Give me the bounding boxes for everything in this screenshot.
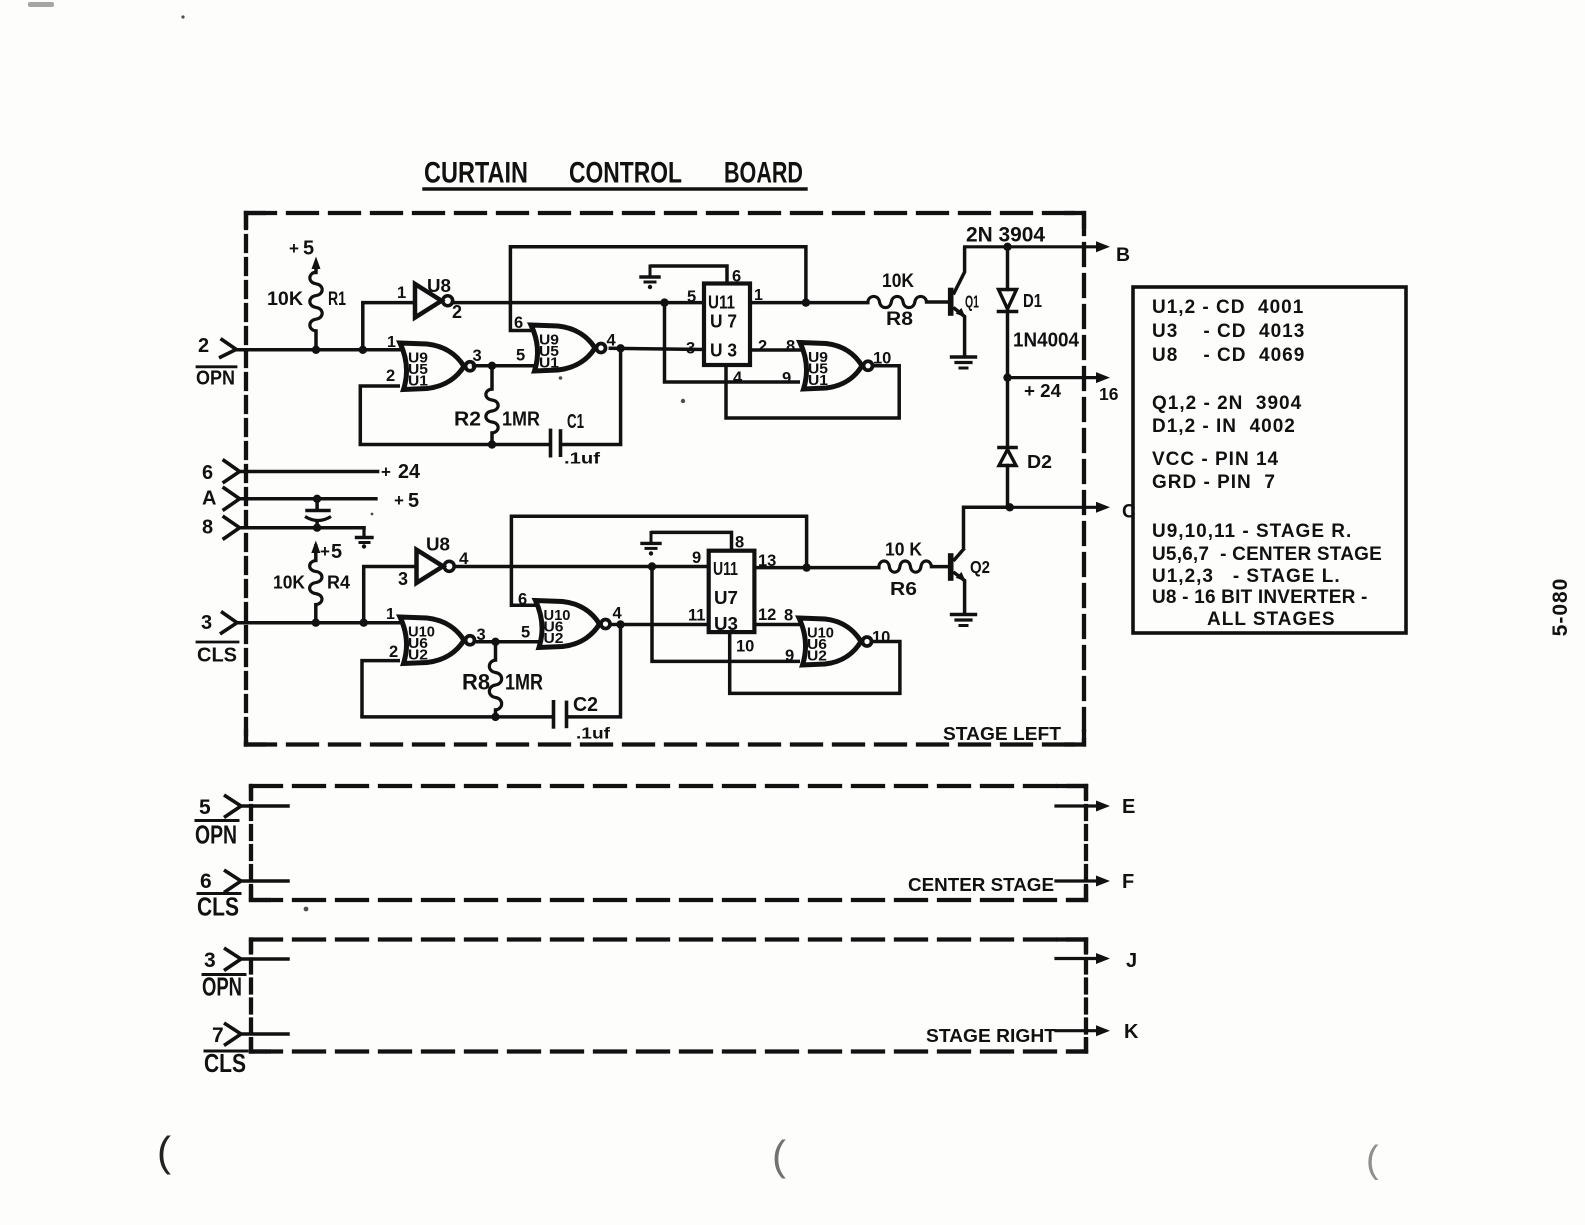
node +24 junction (1003, 373, 1011, 381)
node R2 bottom junction (488, 440, 496, 448)
svg-text:R1: R1 (328, 289, 346, 310)
wire CLS input to NOR U2a pin1 (237, 621, 400, 625)
wire NOR3a input9 from pin5 node (665, 303, 801, 382)
wire input 8 to ground (240, 526, 364, 530)
wire U11a pin6 to ground (650, 266, 727, 284)
NOR gate U1a (U9/U5/U1) (400, 343, 464, 390)
svg-text:ALL STAGES: ALL STAGES (1207, 609, 1336, 630)
label 5 (U11a) (687, 288, 696, 306)
svg-text:D1: D1 (1023, 291, 1042, 311)
label C (1122, 502, 1136, 523)
label 3 (U8b in) (398, 569, 408, 589)
transistor Q2 2N3904 (951, 548, 966, 613)
wire +24 node to output 16 (1008, 376, 1098, 379)
label U8 (U8b) (426, 535, 450, 555)
NOR gate U2c (U10/U6/U2) right (799, 618, 861, 665)
svg-text:U7: U7 (714, 588, 738, 608)
flip-flop box U11/U7/U3 (stage-left lower) (709, 551, 755, 632)
label 2 (NOR U2a) (389, 643, 398, 661)
wire NOR U2b out to U11b pin11 (613, 623, 709, 627)
svg-text:U2: U2 (807, 648, 827, 665)
svg-text:U2: U2 (544, 630, 564, 647)
ground (input 8) (357, 528, 373, 549)
svg-text:5-080: 5-080 (1549, 578, 1572, 637)
svg-text:U2: U2 (408, 647, 428, 664)
wire R8 to Q1 base (927, 300, 948, 304)
label 12 (U11b) (758, 606, 776, 624)
wire branch up to inverter U8a input (363, 303, 415, 350)
scan specks (28, 2, 685, 911)
wire output E (1056, 804, 1097, 807)
wire timing loop bottom (R2/C1) (360, 443, 549, 447)
input connector 6 (+24 feed) (223, 460, 240, 484)
capacitor C3 bypass (305, 499, 331, 528)
svg-text:6: 6 (732, 268, 741, 286)
label Q1 (965, 292, 979, 312)
label 9 (U11b) (692, 549, 701, 567)
node C1 riser junction (616, 344, 624, 352)
svg-text:VCC - PIN 14: VCC - PIN 14 (1152, 449, 1279, 470)
wire output J (1056, 957, 1097, 960)
wire output K (1056, 1029, 1097, 1032)
svg-text:U 3: U 3 (710, 341, 737, 361)
svg-text:4: 4 (613, 605, 623, 623)
notes box (1133, 287, 1406, 633)
input connector 3 (CLS) (220, 612, 237, 635)
svg-text:5: 5 (516, 347, 525, 365)
svg-text:R2: R2 (454, 409, 481, 431)
resistor R6 10K base resistor Q2 (879, 561, 932, 572)
svg-text:U8 - 16 BIT INVERTER -: U8 - 16 BIT INVERTER - (1152, 587, 1368, 608)
svg-text:J: J (1126, 950, 1137, 972)
label 1 (NOR U1a) (387, 334, 396, 351)
transistor Q1 2N3904 (951, 247, 966, 357)
svg-text:3: 3 (686, 340, 695, 358)
svg-text:+: + (394, 491, 404, 510)
svg-text:CLS: CLS (197, 892, 239, 922)
NOR gate U2a (U10/U6/U2) (400, 617, 464, 664)
wire U8b output to U11b pin9 (455, 565, 709, 569)
svg-text:4: 4 (733, 369, 743, 387)
label 16 (1099, 384, 1119, 404)
svg-text:+: + (381, 463, 391, 482)
label R2 (454, 409, 481, 431)
NOR gate U1c (U9/U5/U1) right (800, 343, 862, 390)
label +5 (R1) (289, 238, 314, 260)
ground (Q2 emitter) (952, 613, 976, 616)
label 8 (NOR U1c) (786, 338, 795, 356)
label U8 (U8a) (427, 276, 451, 296)
svg-text:C1: C1 (567, 411, 584, 433)
sheet number 5-080 (1549, 578, 1572, 637)
label +5 (input) (394, 490, 419, 512)
wire input 5 stub (241, 804, 288, 808)
svg-text:C2: C2 (573, 694, 598, 716)
svg-text:1MR: 1MR (505, 670, 543, 695)
svg-text:CONTROL: CONTROL (569, 157, 682, 190)
svg-text:U1: U1 (539, 355, 559, 372)
inverter U8a (415, 284, 442, 318)
svg-text:3: 3 (204, 949, 216, 972)
notes text (1152, 297, 1382, 630)
label 10 K (R6) (885, 539, 923, 560)
label 3 (NOR U1a out) (473, 347, 482, 365)
label J (1126, 950, 1137, 972)
svg-text:BOARD: BOARD (724, 157, 803, 190)
node B/D1 junction (1003, 243, 1011, 251)
svg-text:1N4004: 1N4004 (1013, 329, 1080, 352)
node R8b bottom junction (491, 713, 499, 721)
svg-text:Q2: Q2 (970, 557, 990, 577)
wire NOR3b input9 from pin9 node (652, 567, 800, 662)
resistor R1 10K pull-up (310, 257, 322, 350)
label B (1116, 244, 1130, 266)
svg-text:U3: U3 (714, 614, 738, 634)
diode D2 1N4004 (999, 378, 1016, 508)
svg-text:5: 5 (521, 624, 530, 642)
svg-text:U11: U11 (708, 293, 735, 313)
svg-text:(: ( (772, 1132, 786, 1179)
svg-text:U 7: U 7 (710, 312, 737, 332)
wire U8a output to U11a pin5 (452, 301, 704, 305)
svg-text:U5,6,7 - CENTER STAGE: U5,6,7 - CENTER STAGE (1152, 544, 1382, 565)
svg-text:CLS: CLS (197, 645, 237, 667)
NOR gate U1b (U9/U5/U1) (531, 325, 595, 371)
label 6 (NOR U1b) (514, 314, 523, 332)
wire input A to +5 (240, 497, 376, 501)
svg-text:12: 12 (758, 606, 776, 624)
svg-text:8: 8 (735, 534, 744, 552)
label 2 (U8a out) (452, 302, 462, 322)
wire U11a pin2 to NOR3a pin8 (750, 348, 801, 352)
label 2N 3904 (966, 224, 1045, 247)
label +24 (1024, 381, 1061, 401)
input connector 5 (OPN center) (224, 795, 241, 818)
node R2 top junction (488, 362, 496, 370)
svg-text:OPN: OPN (196, 368, 235, 390)
resistor R2 1MR (486, 366, 498, 445)
NOR gate U2b (U10/U6/U2) (536, 601, 600, 648)
resistor R4 10K pull-up (310, 541, 322, 623)
label 10 (NOR U1c out) (873, 350, 891, 368)
svg-text:8: 8 (202, 517, 213, 539)
label STAGE LEFT (943, 724, 1061, 744)
label C1 (567, 411, 584, 433)
svg-text:10: 10 (736, 638, 754, 656)
label 8 (NOR U2c) (784, 607, 793, 625)
node R8b top junction (491, 638, 499, 646)
svg-text:R8: R8 (886, 309, 913, 330)
wire timing loop bottom (R8b/C2) (362, 715, 552, 719)
input connector 6 (CLS center) (224, 870, 241, 893)
svg-text:U11: U11 (713, 559, 738, 579)
label .1uf (C1) (564, 451, 601, 468)
wire input 6 to +24 (240, 470, 378, 474)
svg-text:.1uf: .1uf (576, 726, 611, 743)
svg-text:F: F (1122, 871, 1134, 893)
label 9 (NOR U1c) (782, 370, 791, 388)
svg-text:5: 5 (331, 541, 342, 563)
input connector 7 (CLS right) (224, 1023, 241, 1046)
svg-text:5: 5 (199, 796, 211, 819)
label 6 (NOR U2b) (518, 591, 527, 609)
svg-text:R4: R4 (327, 572, 351, 593)
svg-text:U9,10,11 - STAGE R.: U9,10,11 - STAGE R. (1152, 521, 1352, 542)
input connector 8 (ground) (223, 516, 240, 540)
label E (1122, 796, 1135, 818)
wire output F (1056, 879, 1097, 882)
svg-text:7: 7 (212, 1024, 224, 1047)
label 6 (U11a set pin) (732, 268, 741, 286)
node rail / pin13 junction (802, 563, 810, 571)
label R8 (1MR) (462, 670, 490, 695)
title CURTAIN CONTROL BOARD (424, 157, 803, 190)
input connector A (+5 feed) (223, 487, 240, 511)
svg-text:GRD - PIN 7: GRD - PIN 7 (1152, 472, 1276, 493)
wire input 6 stub (241, 879, 288, 883)
svg-text:U3 - CD 4013: U3 - CD 4013 (1152, 321, 1305, 342)
label 5 (NOR U2b) (521, 624, 530, 642)
node C2 riser junction (616, 620, 624, 628)
wire NOR U1c out feedback to U11a pin4 (726, 365, 899, 418)
label 4 (NOR U1b out) (607, 332, 617, 350)
svg-text:8: 8 (784, 607, 793, 625)
wire U11a pin1 to R8 (750, 301, 868, 305)
stage-right dashed enclosure box (251, 940, 1086, 1052)
wire NOR U2c out feedback to U11b pin10 (730, 632, 900, 693)
label 10K (R1) (267, 289, 303, 310)
svg-text:(: ( (1366, 1139, 1379, 1181)
node C junction (1006, 503, 1014, 511)
label 2 (U11a) (758, 338, 767, 356)
svg-text:9: 9 (782, 370, 791, 388)
label 1MR (R2) (502, 409, 540, 431)
label 13 (U11b) (758, 552, 776, 570)
label 10 (NOR U2c out) (872, 629, 890, 647)
wire U11b pin8 to ground (651, 532, 732, 550)
wire NOR U1a out to NOR U1b pin5 (474, 364, 534, 368)
capacitor C2 .1uf (554, 702, 567, 727)
diode D1 1N4004 (999, 247, 1017, 378)
svg-text:2: 2 (386, 367, 395, 385)
label K (1124, 1021, 1139, 1043)
svg-text:2: 2 (758, 338, 767, 356)
ground (Q1 emitter) (952, 355, 976, 358)
svg-text:1MR: 1MR (502, 409, 540, 431)
resistor R8 1MR (lower) (489, 642, 501, 717)
node inverter branch junction (CLS) (360, 619, 368, 627)
label STAGE RIGHT (926, 1025, 1057, 1046)
svg-text:STAGE LEFT: STAGE LEFT (943, 724, 1061, 744)
svg-text:.1uf: .1uf (564, 451, 601, 468)
svg-text:8: 8 (786, 338, 795, 356)
wire U11b pin13 to R6 (754, 566, 878, 570)
svg-text:6: 6 (202, 462, 213, 484)
svg-text:9: 9 (692, 549, 701, 567)
svg-text:U8: U8 (426, 535, 450, 555)
label CENTER STAGE (908, 874, 1054, 895)
label D2 (1027, 452, 1052, 472)
svg-text:(: ( (157, 1128, 171, 1175)
label 3 (NOR U2a out) (477, 626, 486, 644)
wire Q1 collector rail to output B (965, 245, 1097, 248)
svg-text:5: 5 (408, 490, 419, 512)
label D1 (1023, 291, 1042, 311)
svg-text:U1: U1 (808, 372, 828, 389)
label Q2 (970, 557, 990, 577)
wire OPN input to NOR U1a pin1 (236, 348, 400, 352)
label +24 (input) (381, 461, 421, 483)
label 2 (NOR U1a) (386, 367, 395, 385)
wire NOR U2a out to NOR U2b pin5 (478, 640, 538, 644)
wire branch up to inverter U8b input (364, 567, 417, 623)
wire input 3 stub (241, 957, 288, 961)
label R4 (327, 572, 351, 593)
label 10K (R4) (273, 572, 306, 593)
label 4 (NOR U2b out) (613, 605, 623, 623)
label 11 (U11b) (688, 607, 705, 625)
svg-text:1: 1 (387, 334, 396, 351)
label 3 (U11a) (686, 340, 695, 358)
svg-text:6: 6 (200, 870, 212, 893)
svg-text:U1,2 - CD 4001: U1,2 - CD 4001 (1152, 297, 1304, 318)
label F (1122, 871, 1134, 893)
label R6 (890, 578, 917, 599)
label 10 (U11b reset pin) (736, 638, 754, 656)
label 9 (NOR U2c) (785, 647, 794, 665)
svg-text:16: 16 (1099, 384, 1119, 404)
svg-text:CURTAIN: CURTAIN (424, 157, 528, 190)
label 1 (NOR U2a) (386, 606, 395, 623)
svg-text:9: 9 (785, 647, 794, 665)
svg-text:STAGE RIGHT: STAGE RIGHT (926, 1025, 1057, 1046)
svg-text:5: 5 (687, 288, 696, 306)
svg-text:D1,2 - IN 4002: D1,2 - IN 4002 (1152, 416, 1296, 437)
wire C1 to NOR U1b output node (562, 348, 621, 444)
svg-text:2: 2 (452, 302, 462, 322)
svg-text:B: B (1116, 244, 1130, 266)
svg-text:10K: 10K (273, 572, 306, 593)
label +5 (R4) (320, 541, 342, 563)
wire C node to output C (1010, 506, 1097, 509)
wire top feedback rail (U11a pin1 to NOR U1b pin6) (510, 247, 806, 331)
flip-flop box U11/U7/U3 (stage-left upper) (704, 284, 750, 366)
wire R6 to Q2 base (932, 565, 949, 569)
node U8a-out / pin5 / NOR3a-9 junction (660, 298, 668, 306)
svg-text:U8 - CD 4069: U8 - CD 4069 (1152, 345, 1305, 366)
svg-text:10 K: 10 K (885, 539, 923, 560)
svg-text:1: 1 (397, 284, 406, 302)
svg-text:2: 2 (389, 643, 398, 661)
capacitor C1 .1uf (551, 430, 561, 455)
svg-text:D2: D2 (1027, 452, 1052, 472)
wire top feedback rail (U11b pin13 to NOR U2b pin6) (511, 516, 806, 605)
inverter U8b (417, 550, 444, 583)
label C2 (573, 694, 598, 716)
stage-left dashed enclosure box (246, 213, 1084, 745)
svg-text:U8: U8 (427, 276, 451, 296)
label 4 (U11a reset pin) (733, 369, 743, 387)
node R4/CLS junction (312, 619, 320, 627)
svg-text:A: A (202, 488, 216, 510)
node R1/OPN junction (312, 346, 320, 354)
label R1 (328, 289, 346, 310)
wire U11b pin12 to NOR3b pin8 (754, 623, 800, 627)
label 1 (U11a) (754, 287, 763, 304)
label 4 (U8b out) (459, 549, 469, 568)
wire C node to Q2 collector (964, 507, 1010, 548)
label 1 (U8a in) (397, 284, 406, 302)
svg-text:2: 2 (198, 335, 209, 357)
svg-text:U1,2,3 - STAGE L.: U1,2,3 - STAGE L. (1152, 566, 1341, 587)
svg-text:OPN: OPN (195, 820, 237, 850)
label 5 (NOR U1b) (516, 347, 525, 365)
label 8 (U11b set pin) (735, 534, 744, 552)
input connector 3 (OPN right) (224, 948, 241, 971)
label 10K (R8) (882, 270, 914, 292)
svg-text:E: E (1122, 796, 1135, 818)
resistor R8 10K base resistor Q1 (868, 296, 927, 307)
svg-text:5: 5 (303, 238, 314, 260)
input connector 2 (OPN) (219, 339, 236, 358)
wire NOR U1a pin2 feedback stub (360, 386, 400, 445)
wire input 7 stub (241, 1032, 288, 1036)
node A/C3 junction (313, 495, 321, 503)
svg-text:K: K (1124, 1021, 1139, 1043)
wire C2 to NOR U2b output node (568, 625, 621, 717)
svg-text:CENTER STAGE: CENTER STAGE (908, 874, 1054, 895)
svg-text:11: 11 (688, 607, 705, 625)
svg-text:+: + (320, 542, 330, 561)
ground (U11a pin6) (649, 266, 652, 277)
svg-text:+: + (289, 239, 299, 258)
svg-text:10: 10 (872, 629, 890, 647)
svg-text:3: 3 (473, 347, 482, 365)
node inverter branch junction (359, 346, 367, 354)
svg-text:Q1: Q1 (965, 292, 979, 312)
svg-text:10K: 10K (882, 270, 914, 292)
svg-text:+ 24: + 24 (1024, 381, 1061, 401)
node 8/C3 junction (313, 524, 321, 532)
svg-text:U1: U1 (408, 373, 428, 390)
svg-text:3: 3 (398, 569, 408, 589)
label 1N4004 (1013, 329, 1080, 352)
center-stage dashed enclosure box (251, 786, 1086, 900)
label .1uf (C2) (576, 726, 611, 743)
wire NOR U2a pin2 feedback stub (362, 661, 400, 717)
svg-text:1: 1 (386, 606, 395, 623)
svg-text:Q1,2 - 2N 3904: Q1,2 - 2N 3904 (1152, 393, 1302, 414)
ground (U11b pin8) (650, 532, 653, 543)
svg-text:10K: 10K (267, 289, 303, 310)
svg-text:R6: R6 (890, 578, 917, 599)
node rail / pin1 junction (802, 298, 810, 306)
svg-text:3: 3 (201, 612, 212, 634)
svg-text:24: 24 (398, 461, 421, 483)
node U8b-out / pin9 / NOR3b-9 junction (648, 562, 656, 570)
label R8 (886, 309, 913, 330)
svg-text:R8: R8 (462, 670, 490, 695)
wire NOR U1b out to U11a pin3 (610, 348, 704, 349)
label 1MR (505, 670, 543, 695)
